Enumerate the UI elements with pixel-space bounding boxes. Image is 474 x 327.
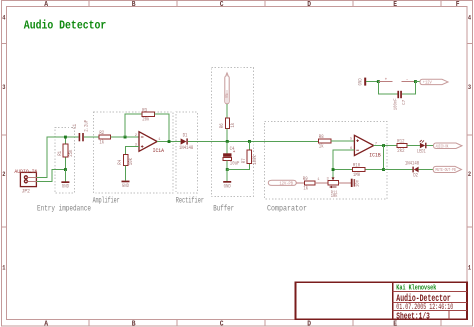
svg-text:Rectifier: Rectifier xyxy=(176,197,204,206)
svg-text:Entry impedance: Entry impedance xyxy=(37,204,91,213)
power pin V+ IC1 xyxy=(379,78,393,83)
wire D1 to buffer rail xyxy=(188,140,319,142)
node junction rail C4 xyxy=(226,140,229,143)
wire op-amp plus input to R4 xyxy=(126,147,140,155)
op-amp IC1A xyxy=(139,132,165,154)
pin number 7 IC1B xyxy=(375,142,378,146)
wire C1 to R2 xyxy=(84,136,99,138)
svg-text:1k: 1k xyxy=(99,140,104,146)
LED LED1 xyxy=(417,140,427,155)
wire R9 to potentiometer xyxy=(315,182,328,184)
trimmer R5 xyxy=(224,73,230,104)
wire D2 to mute flag xyxy=(419,169,434,171)
svg-text:10uF: 10uF xyxy=(230,161,240,167)
svg-text:D2: D2 xyxy=(413,173,418,179)
svg-text:10n: 10n xyxy=(354,180,360,187)
svg-text:Buffer: Buffer xyxy=(213,204,234,213)
svg-text:R3: R3 xyxy=(142,107,147,113)
wire R5 to R6 xyxy=(226,104,228,118)
svg-text:R7: R7 xyxy=(241,158,247,163)
ground symbol entry xyxy=(61,170,69,190)
resistor R9 xyxy=(303,176,315,192)
ground symbol supply xyxy=(357,78,366,86)
wire potentiometer to C5 xyxy=(338,182,350,184)
connector JP2 AUDIO-IN xyxy=(20,172,36,186)
frame column ticks top xyxy=(89,1,441,6)
resistor R4 xyxy=(117,155,134,166)
wire R4 to ground xyxy=(125,165,127,180)
svg-text:-: - xyxy=(406,77,408,82)
svg-text:R5: R5 xyxy=(224,93,230,98)
svg-text:D: D xyxy=(307,320,311,327)
svg-text:R1: R1 xyxy=(57,151,63,156)
node junction ground R1 xyxy=(64,168,67,171)
section label Comparator xyxy=(267,204,307,213)
pin number 3 R11 xyxy=(327,177,330,181)
wire D2 row xyxy=(384,169,413,171)
svg-text:1: 1 xyxy=(468,265,471,272)
svg-text:Audio Detector: Audio Detector xyxy=(24,18,107,32)
svg-text:2.2uF: 2.2uF xyxy=(83,120,89,132)
svg-text:F: F xyxy=(456,1,460,9)
title block row lines xyxy=(393,292,467,320)
resistor R10 xyxy=(353,163,366,178)
wire rail to C4 xyxy=(226,141,228,153)
supply flag 12V-PB xyxy=(268,180,296,186)
svg-text:+: + xyxy=(385,78,388,83)
pin number 3 IC1A xyxy=(135,144,138,148)
section label Rectifier xyxy=(176,197,204,206)
svg-text:D1: D1 xyxy=(183,133,188,139)
supply flag +12V xyxy=(420,79,448,85)
net flag AUDIO output xyxy=(434,143,463,150)
op-amp IC1B xyxy=(354,135,381,158)
wire input top pin to signal rail xyxy=(36,137,78,177)
pin number 1 R11 xyxy=(317,178,320,182)
svg-text:GND: GND xyxy=(122,183,129,189)
wire LED1 to output flag xyxy=(427,145,434,147)
svg-text:10k: 10k xyxy=(331,193,338,199)
resistor R1 xyxy=(57,137,74,170)
node junction rail R7 xyxy=(248,140,251,143)
svg-text:+12V: +12V xyxy=(423,80,432,86)
svg-text:AUDIO-OK: AUDIO-OK xyxy=(436,144,449,150)
svg-text:E: E xyxy=(393,1,397,9)
wire feedback to R10 xyxy=(333,169,384,171)
resistor R6 xyxy=(219,118,236,129)
svg-text:1k: 1k xyxy=(319,144,324,150)
svg-text:+: + xyxy=(233,149,235,155)
pin number 5 IC1B xyxy=(350,138,353,142)
svg-text:D: D xyxy=(307,1,311,9)
capacitor C4 xyxy=(223,146,239,167)
svg-text:C: C xyxy=(220,320,224,327)
svg-text:Amplifier: Amplifier xyxy=(93,196,120,205)
svg-text:GND: GND xyxy=(224,183,231,189)
frame row numbers left xyxy=(2,15,5,272)
section label Buffer xyxy=(213,204,234,213)
svg-text:R8: R8 xyxy=(319,134,324,140)
node junction wiper feedback xyxy=(332,168,335,171)
svg-text:A: A xyxy=(44,1,48,9)
node junction feedback D2 row xyxy=(382,168,385,171)
wire R8 to op-amp plus input xyxy=(331,140,354,142)
svg-text:C1: C1 xyxy=(72,124,78,129)
power pin V- IC1 xyxy=(401,77,415,82)
svg-text:25k: 25k xyxy=(68,150,74,157)
wire C7 branch xyxy=(378,82,415,95)
wire flag to R9 xyxy=(296,182,304,184)
node junction output feedback xyxy=(168,140,171,143)
resistor R7 xyxy=(241,141,258,164)
section box Buffer xyxy=(212,68,254,197)
section label Entry impedance xyxy=(37,204,91,213)
diode D1 xyxy=(179,133,193,152)
svg-text:C: C xyxy=(220,1,224,9)
pin number 6 IC1B xyxy=(350,147,353,151)
section box Entry impedance xyxy=(55,128,75,194)
svg-text:Kai Klenovsek: Kai Klenovsek xyxy=(396,285,436,293)
wire feedback up to R3 xyxy=(125,114,142,137)
svg-text:R9: R9 xyxy=(303,176,308,182)
section label Amplifier xyxy=(93,196,120,205)
resistor R8 xyxy=(318,134,331,149)
svg-text:Comparator: Comparator xyxy=(267,204,307,213)
svg-text:Sheet:1/3: Sheet:1/3 xyxy=(396,311,430,321)
wire op-amp output xyxy=(374,145,397,147)
svg-text:12V-PB: 12V-PB xyxy=(280,180,294,186)
svg-text:LED1: LED1 xyxy=(417,149,426,155)
svg-text:1N4148: 1N4148 xyxy=(405,161,419,167)
label AUDIO-IN xyxy=(14,169,37,175)
sheet title text xyxy=(24,18,107,32)
potentiometer R11 xyxy=(328,177,339,199)
diode D2 xyxy=(405,161,419,179)
wire op-amp minus input to wiper xyxy=(333,150,354,179)
svg-text:GND: GND xyxy=(357,78,363,85)
svg-text:4: 4 xyxy=(468,15,471,22)
section box Amplifier xyxy=(94,112,174,193)
svg-text:100nF: 100nF xyxy=(392,98,398,110)
frame column letters top xyxy=(44,1,460,9)
svg-text:1: 1 xyxy=(2,265,5,272)
section box Comparator xyxy=(265,122,388,199)
svg-text:GND: GND xyxy=(62,184,69,190)
resistor R2 xyxy=(99,130,111,146)
svg-text:1N4148: 1N4148 xyxy=(179,145,193,151)
wire R2 to op-amp inverting input xyxy=(111,136,140,138)
frame column letters bottom xyxy=(44,320,397,327)
title block project name xyxy=(396,293,451,305)
wire feedback down xyxy=(383,146,385,170)
wire op-amp output rail xyxy=(157,141,180,143)
svg-text:1M0: 1M0 xyxy=(353,172,360,178)
svg-text:3: 3 xyxy=(2,84,5,91)
svg-text:E: E xyxy=(393,320,397,327)
svg-text:1k: 1k xyxy=(230,123,236,128)
title block author text xyxy=(396,285,436,293)
label JP2 xyxy=(22,188,31,194)
title block sheet number xyxy=(396,311,430,321)
frame row numbers right xyxy=(468,15,471,272)
node junction supply left xyxy=(377,80,380,83)
node junction C4 R7 ground link xyxy=(226,168,229,171)
svg-text:R6: R6 xyxy=(219,123,225,128)
svg-text:20k: 20k xyxy=(142,117,149,123)
node junction feedback tap xyxy=(124,136,127,139)
frame row ticks left xyxy=(2,44,7,228)
svg-text:B: B xyxy=(132,320,136,327)
svg-text:AUDIO-IN: AUDIO-IN xyxy=(14,169,37,175)
svg-text:4: 4 xyxy=(2,15,5,22)
resistor R12 xyxy=(397,139,407,154)
svg-text:R2: R2 xyxy=(99,130,104,136)
wire to supply flag xyxy=(415,81,420,83)
svg-text:3: 3 xyxy=(468,84,471,91)
section box Rectifier xyxy=(176,112,198,193)
svg-text:1k: 1k xyxy=(303,186,308,192)
node junction output feedback IC1B xyxy=(382,144,385,147)
pin number 1 IC1A xyxy=(158,138,161,142)
capacitor C5 xyxy=(351,179,361,187)
wire R3 to output node xyxy=(154,114,169,141)
svg-text:IC1A: IC1A xyxy=(153,147,165,154)
wire input bottom pin to ground node xyxy=(36,170,65,182)
svg-text:2: 2 xyxy=(468,171,471,178)
svg-text:IC1B: IC1B xyxy=(369,152,381,159)
title block date xyxy=(396,303,453,312)
svg-text:MUTE-OUT-PB: MUTE-OUT-PB xyxy=(436,167,456,173)
ground symbol buffer xyxy=(223,170,231,190)
wire R12 to LED1 xyxy=(407,145,420,147)
svg-text:R10: R10 xyxy=(353,163,360,169)
frame column ticks bottom xyxy=(89,319,441,326)
wire R6 to rail xyxy=(226,129,228,142)
net flag MUTE output xyxy=(433,166,461,173)
pin number 2 IC1A xyxy=(135,134,138,138)
svg-text:2: 2 xyxy=(2,171,5,178)
svg-text:C7: C7 xyxy=(401,100,407,105)
svg-text:2k2: 2k2 xyxy=(397,148,404,154)
svg-text:R12: R12 xyxy=(397,139,404,145)
wire ground link to R7 xyxy=(227,164,249,170)
title block divider xyxy=(392,282,394,319)
resistor R3 xyxy=(142,107,155,122)
node junction supply right xyxy=(414,80,417,83)
svg-text:100k: 100k xyxy=(252,155,258,165)
svg-text:R4: R4 xyxy=(117,160,123,165)
wire supply ground to node xyxy=(366,81,378,83)
node junction rail R1 xyxy=(64,136,67,139)
frame row ticks right xyxy=(467,44,473,228)
ground symbol amplifier xyxy=(122,181,130,189)
title block border xyxy=(296,282,468,319)
svg-text:B: B xyxy=(132,1,136,9)
svg-text:A: A xyxy=(44,320,48,327)
capacitor C7 xyxy=(392,91,406,111)
wire C4 to ground node xyxy=(226,161,228,170)
svg-text:10k: 10k xyxy=(128,158,134,165)
capacitor C1 xyxy=(72,120,89,142)
svg-text:JP2: JP2 xyxy=(22,188,31,194)
